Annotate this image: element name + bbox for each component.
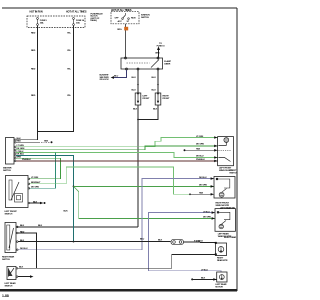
wire w3 black to connector xyxy=(18,241,171,243)
svg-text:DK GRN: DK GRN xyxy=(199,185,207,187)
svg-text:BLU: BLU xyxy=(114,76,119,78)
wire breaker left ref (navy) xyxy=(114,70,127,78)
ignition switch (dashed) xyxy=(111,12,139,24)
svg-text:LT GRN: LT GRN xyxy=(31,177,39,179)
window motor A xyxy=(135,93,141,105)
circuit breaker box xyxy=(121,58,163,69)
svg-text:RED: RED xyxy=(31,33,36,35)
svg-text:LEFT REAR SW: LEFT REAR SW xyxy=(220,206,236,209)
fuse F2 xyxy=(73,18,75,26)
svg-text:LT GRN: LT GRN xyxy=(17,145,25,147)
dot ref wire to box5R xyxy=(191,278,193,280)
svg-text:RED: RED xyxy=(31,50,36,52)
svg-text:HOT IN RUN: HOT IN RUN xyxy=(30,11,43,14)
svg-text:BLK: BLK xyxy=(33,201,38,203)
svg-text:PNK/BLK: PNK/BLK xyxy=(196,159,205,161)
svg-text:BLU: BLU xyxy=(151,90,156,92)
RF window switch box2R xyxy=(214,177,235,199)
svg-text:DK GRN: DK GRN xyxy=(31,187,39,189)
wire green long to box2R xyxy=(74,185,215,187)
wire t2 green over to box2R e3 xyxy=(29,167,190,194)
svg-text:SWITCH: SWITCH xyxy=(229,173,237,175)
svg-text:SEE: SEE xyxy=(44,141,49,143)
svg-text:DK BLU: DK BLU xyxy=(196,156,204,158)
svg-text:30A: 30A xyxy=(76,21,80,24)
svg-text:C/BKR: C/BKR xyxy=(164,64,171,66)
svg-text:HOT AT ALL TIMES: HOT AT ALL TIMES xyxy=(66,11,87,14)
svg-text:BLK: BLK xyxy=(153,109,158,111)
wire ignition down (org) xyxy=(125,24,127,58)
svg-text:BLU: BLU xyxy=(151,77,156,79)
svg-text:DASH): DASH) xyxy=(91,19,98,22)
svg-text:RED: RED xyxy=(17,141,22,143)
svg-text:OFF: OFF xyxy=(115,17,120,19)
svg-text:LT BLU: LT BLU xyxy=(17,151,24,153)
svg-text:YEL: YEL xyxy=(67,95,72,97)
ref arrow up xyxy=(158,50,160,59)
svg-text:LT BLU: LT BLU xyxy=(203,212,210,214)
wire fuse2 down joins fuse1 xyxy=(38,26,74,132)
svg-text:LT BLU: LT BLU xyxy=(201,269,208,271)
svg-text:BLK: BLK xyxy=(38,225,43,227)
entry arrowheads right column xyxy=(137,93,218,281)
svg-text:YEL: YEL xyxy=(67,33,72,35)
blue wire box3R to box5R xyxy=(149,213,222,272)
wire ground drop xyxy=(137,105,139,227)
svg-text:ORG: ORG xyxy=(155,53,160,55)
wire r4 green to e2 xyxy=(16,146,218,150)
LF window switch xyxy=(6,176,29,208)
svg-text:RED: RED xyxy=(20,231,25,233)
wire w2 elbow down xyxy=(18,233,37,268)
svg-text:FRONT: FRONT xyxy=(163,98,171,100)
wire ground run xyxy=(17,226,138,228)
wire breaker to motor B xyxy=(157,70,159,93)
svg-text:BLK: BLK xyxy=(158,239,163,241)
svg-text:BLK: BLK xyxy=(63,210,68,212)
svg-text:PNK/BLK: PNK/BLK xyxy=(22,159,31,161)
ref dot wire e3 xyxy=(184,149,186,151)
svg-text:SWITCH: SWITCH xyxy=(5,286,13,288)
svg-text:FRONT: FRONT xyxy=(143,98,151,100)
svg-text:BRN: BRN xyxy=(17,157,22,159)
svg-text:SWITCH: SWITCH xyxy=(141,17,149,19)
svg-text:YEL: YEL xyxy=(67,69,72,71)
border bottom xyxy=(0,289,237,291)
wire v2 black arrow xyxy=(18,276,30,278)
svg-text:BLU: BLU xyxy=(131,90,136,92)
wire green to box3R xyxy=(79,192,215,219)
wire motors join xyxy=(138,105,158,120)
svg-text:DK GRN: DK GRN xyxy=(196,144,204,146)
svg-text:FUSE 14: FUSE 14 xyxy=(76,19,85,22)
svg-text:TAN: TAN xyxy=(196,148,200,151)
ground path bottom xyxy=(18,254,216,268)
RR window motor box4R xyxy=(216,243,227,256)
LR window motor box5R xyxy=(217,272,227,282)
svg-text:BLK: BLK xyxy=(133,109,138,111)
svg-text:BLU: BLU xyxy=(140,239,145,241)
wire fuse1 down to master switch xyxy=(16,26,38,140)
svg-text:ST: ST xyxy=(127,21,130,23)
orange swatch xyxy=(124,27,128,31)
window motor B xyxy=(155,93,161,105)
rear switch box5L xyxy=(5,223,16,253)
svg-text:ORG: ORG xyxy=(117,29,122,31)
RF window motor box1R xyxy=(218,137,234,166)
svg-text:REAR MTR: REAR MTR xyxy=(217,259,228,262)
inline connector xyxy=(171,239,184,244)
svg-text:LT GRN: LT GRN xyxy=(196,136,204,138)
wire r2 dashed ref xyxy=(16,141,39,143)
svg-text:SWITCH: SWITCH xyxy=(3,170,11,172)
svg-text:1-88: 1-88 xyxy=(2,294,9,298)
svg-text:RED: RED xyxy=(31,69,36,71)
wire r5 branch to LF t3 xyxy=(29,153,56,189)
bottom left switch box6L xyxy=(7,267,16,280)
svg-text:HOT AT ALL TIMES: HOT AT ALL TIMES xyxy=(111,9,132,12)
svg-text:DK GRN: DK GRN xyxy=(17,148,25,150)
border top xyxy=(2,7,237,9)
fuse F1 xyxy=(37,18,39,26)
svg-text:BLU: BLU xyxy=(131,77,136,79)
svg-text:RED: RED xyxy=(31,95,36,97)
svg-text:ACC: ACC xyxy=(118,20,123,23)
blue wire box5L to box2R xyxy=(18,179,215,250)
svg-text:DK BLU: DK BLU xyxy=(20,248,28,250)
svg-text:DK BLU: DK BLU xyxy=(199,177,207,179)
svg-text:BLK: BLK xyxy=(20,225,25,227)
fuse block (dashed) xyxy=(27,16,85,27)
wire r3 green to RF motor e1 xyxy=(16,138,218,147)
master switch xyxy=(6,138,15,165)
svg-text:F SHIELD: F SHIELD xyxy=(194,240,203,242)
svg-text:RUN: RUN xyxy=(131,17,136,19)
svg-text:DK BLU: DK BLU xyxy=(17,154,25,156)
svg-text:MOTOR: MOTOR xyxy=(215,287,223,289)
wire breaker to motor A xyxy=(137,70,139,93)
wire maroon row xyxy=(16,160,218,162)
wire t4 black ref xyxy=(30,202,41,204)
svg-text:TAN: TAN xyxy=(199,192,203,195)
wire r5 green to e4 xyxy=(16,153,218,158)
svg-text:DK GRN: DK GRN xyxy=(203,217,211,219)
border right xyxy=(236,8,238,291)
svg-text:YEL: YEL xyxy=(67,50,72,52)
svg-text:BRN/WHT: BRN/WHT xyxy=(31,182,41,184)
svg-text:30A: 30A xyxy=(40,21,44,24)
svg-text:SWITCH: SWITCH xyxy=(2,259,10,261)
svg-text:SWITCH: SWITCH xyxy=(5,214,13,216)
svg-text:BLK: BLK xyxy=(201,278,206,280)
LR switch box3R xyxy=(215,209,235,232)
svg-text:RIGHT REAR: RIGHT REAR xyxy=(224,236,237,239)
svg-text:BLK: BLK xyxy=(19,267,24,269)
svg-text:BLK: BLK xyxy=(20,240,25,242)
svg-text:FUSE 10: FUSE 10 xyxy=(157,45,166,47)
svg-text:DR LOCK: DR LOCK xyxy=(100,79,109,81)
wire r6 teal down xyxy=(16,155,74,241)
wire r7 green to LF t1 xyxy=(16,158,61,179)
wire green jog xyxy=(74,186,79,191)
